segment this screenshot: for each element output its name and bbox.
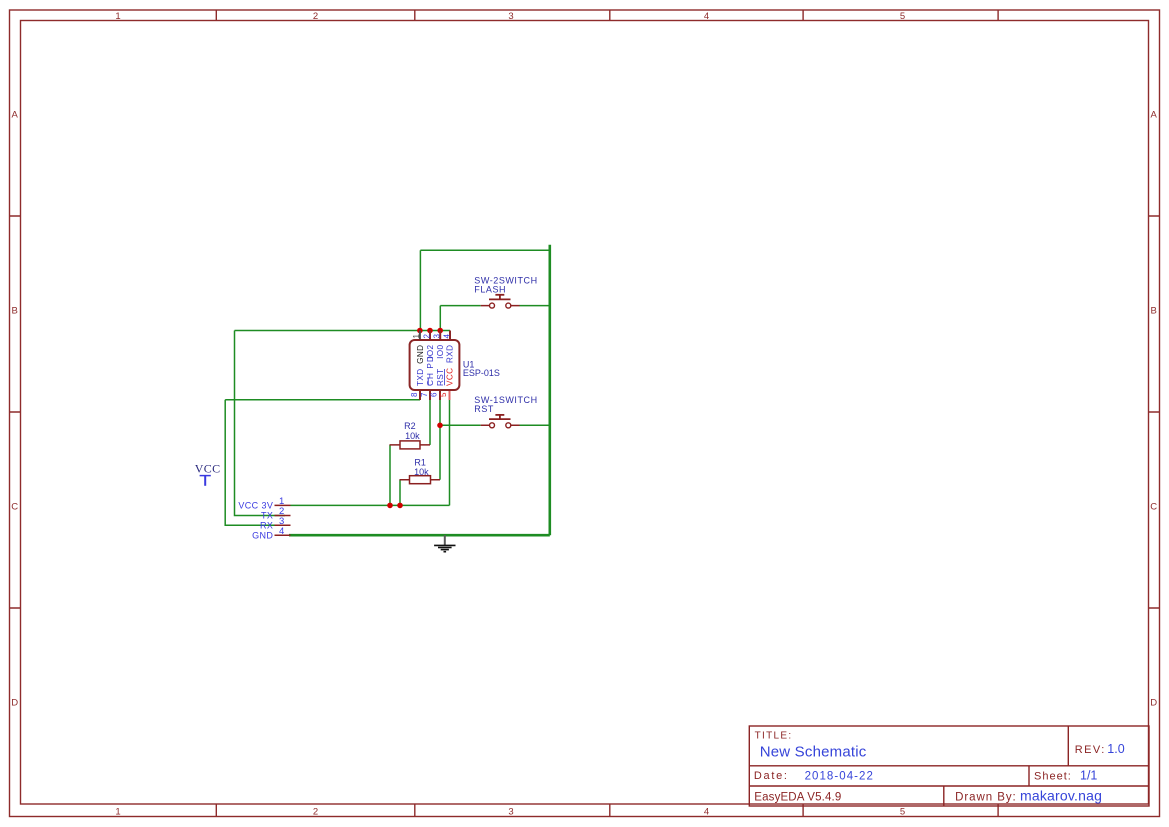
svg-text:TXD: TXD (416, 368, 425, 386)
svg-text:4: 4 (704, 807, 709, 818)
svg-text:D: D (11, 698, 18, 709)
svg-text:7: 7 (420, 392, 429, 397)
svg-text:R1: R1 (414, 458, 426, 468)
svg-text:GND: GND (416, 345, 425, 364)
svg-text:3: 3 (433, 334, 442, 339)
svg-text:RX: RX (260, 520, 273, 530)
svg-text:6: 6 (430, 392, 439, 397)
svg-text:Sheet:: Sheet: (1034, 771, 1072, 783)
svg-text:B: B (1151, 306, 1157, 317)
svg-text:3: 3 (508, 11, 513, 22)
svg-text:D: D (1150, 698, 1157, 709)
svg-text:4: 4 (279, 526, 284, 537)
svg-text:1: 1 (115, 11, 120, 22)
svg-text:5: 5 (900, 11, 905, 22)
svg-text:VCC 3V: VCC 3V (238, 501, 273, 511)
svg-text:8: 8 (410, 392, 419, 397)
svg-text:C: C (11, 502, 18, 513)
svg-text:5: 5 (900, 807, 905, 818)
svg-text:2018-04-22: 2018-04-22 (805, 770, 874, 782)
svg-text:5: 5 (439, 392, 448, 397)
svg-text:3: 3 (508, 807, 513, 818)
svg-text:A: A (1151, 110, 1158, 121)
svg-text:EasyEDA V5.4.9: EasyEDA V5.4.9 (754, 792, 841, 804)
svg-text:4: 4 (704, 11, 709, 22)
svg-text:New Schematic: New Schematic (760, 743, 867, 760)
svg-text:2: 2 (313, 11, 318, 22)
svg-text:RST: RST (474, 404, 494, 414)
svg-text:1: 1 (412, 334, 421, 339)
svg-text:A: A (12, 110, 19, 121)
svg-text:C: C (1150, 502, 1157, 513)
svg-text:REV:: REV: (1075, 744, 1106, 756)
svg-text:1.0: 1.0 (1107, 742, 1124, 756)
svg-text:B: B (12, 306, 18, 317)
svg-text:TX: TX (261, 511, 273, 521)
svg-text:10k: 10k (414, 467, 429, 477)
svg-text:VCC: VCC (195, 462, 221, 476)
svg-text:TITLE:: TITLE: (755, 730, 793, 741)
svg-text:1: 1 (115, 807, 120, 818)
svg-text:4: 4 (442, 334, 451, 339)
svg-text:IO2: IO2 (426, 344, 435, 358)
svg-text:Drawn By:: Drawn By: (955, 792, 1017, 804)
svg-text:2: 2 (313, 807, 318, 818)
svg-text:2: 2 (422, 334, 431, 339)
svg-text:RXD: RXD (445, 345, 454, 364)
svg-text:VCC: VCC (445, 368, 454, 387)
svg-text:FLASH: FLASH (474, 285, 506, 295)
svg-text:1/1: 1/1 (1080, 769, 1097, 783)
svg-text:10k: 10k (405, 431, 420, 441)
svg-text:IO0: IO0 (436, 344, 445, 358)
svg-text:RST: RST (436, 368, 445, 386)
svg-text:Date:: Date: (754, 770, 789, 782)
svg-text:ESP-01S: ESP-01S (463, 368, 500, 378)
svg-text:makarov.nag: makarov.nag (1020, 788, 1102, 804)
svg-text:GND: GND (252, 530, 273, 540)
svg-text:R2: R2 (404, 421, 416, 431)
